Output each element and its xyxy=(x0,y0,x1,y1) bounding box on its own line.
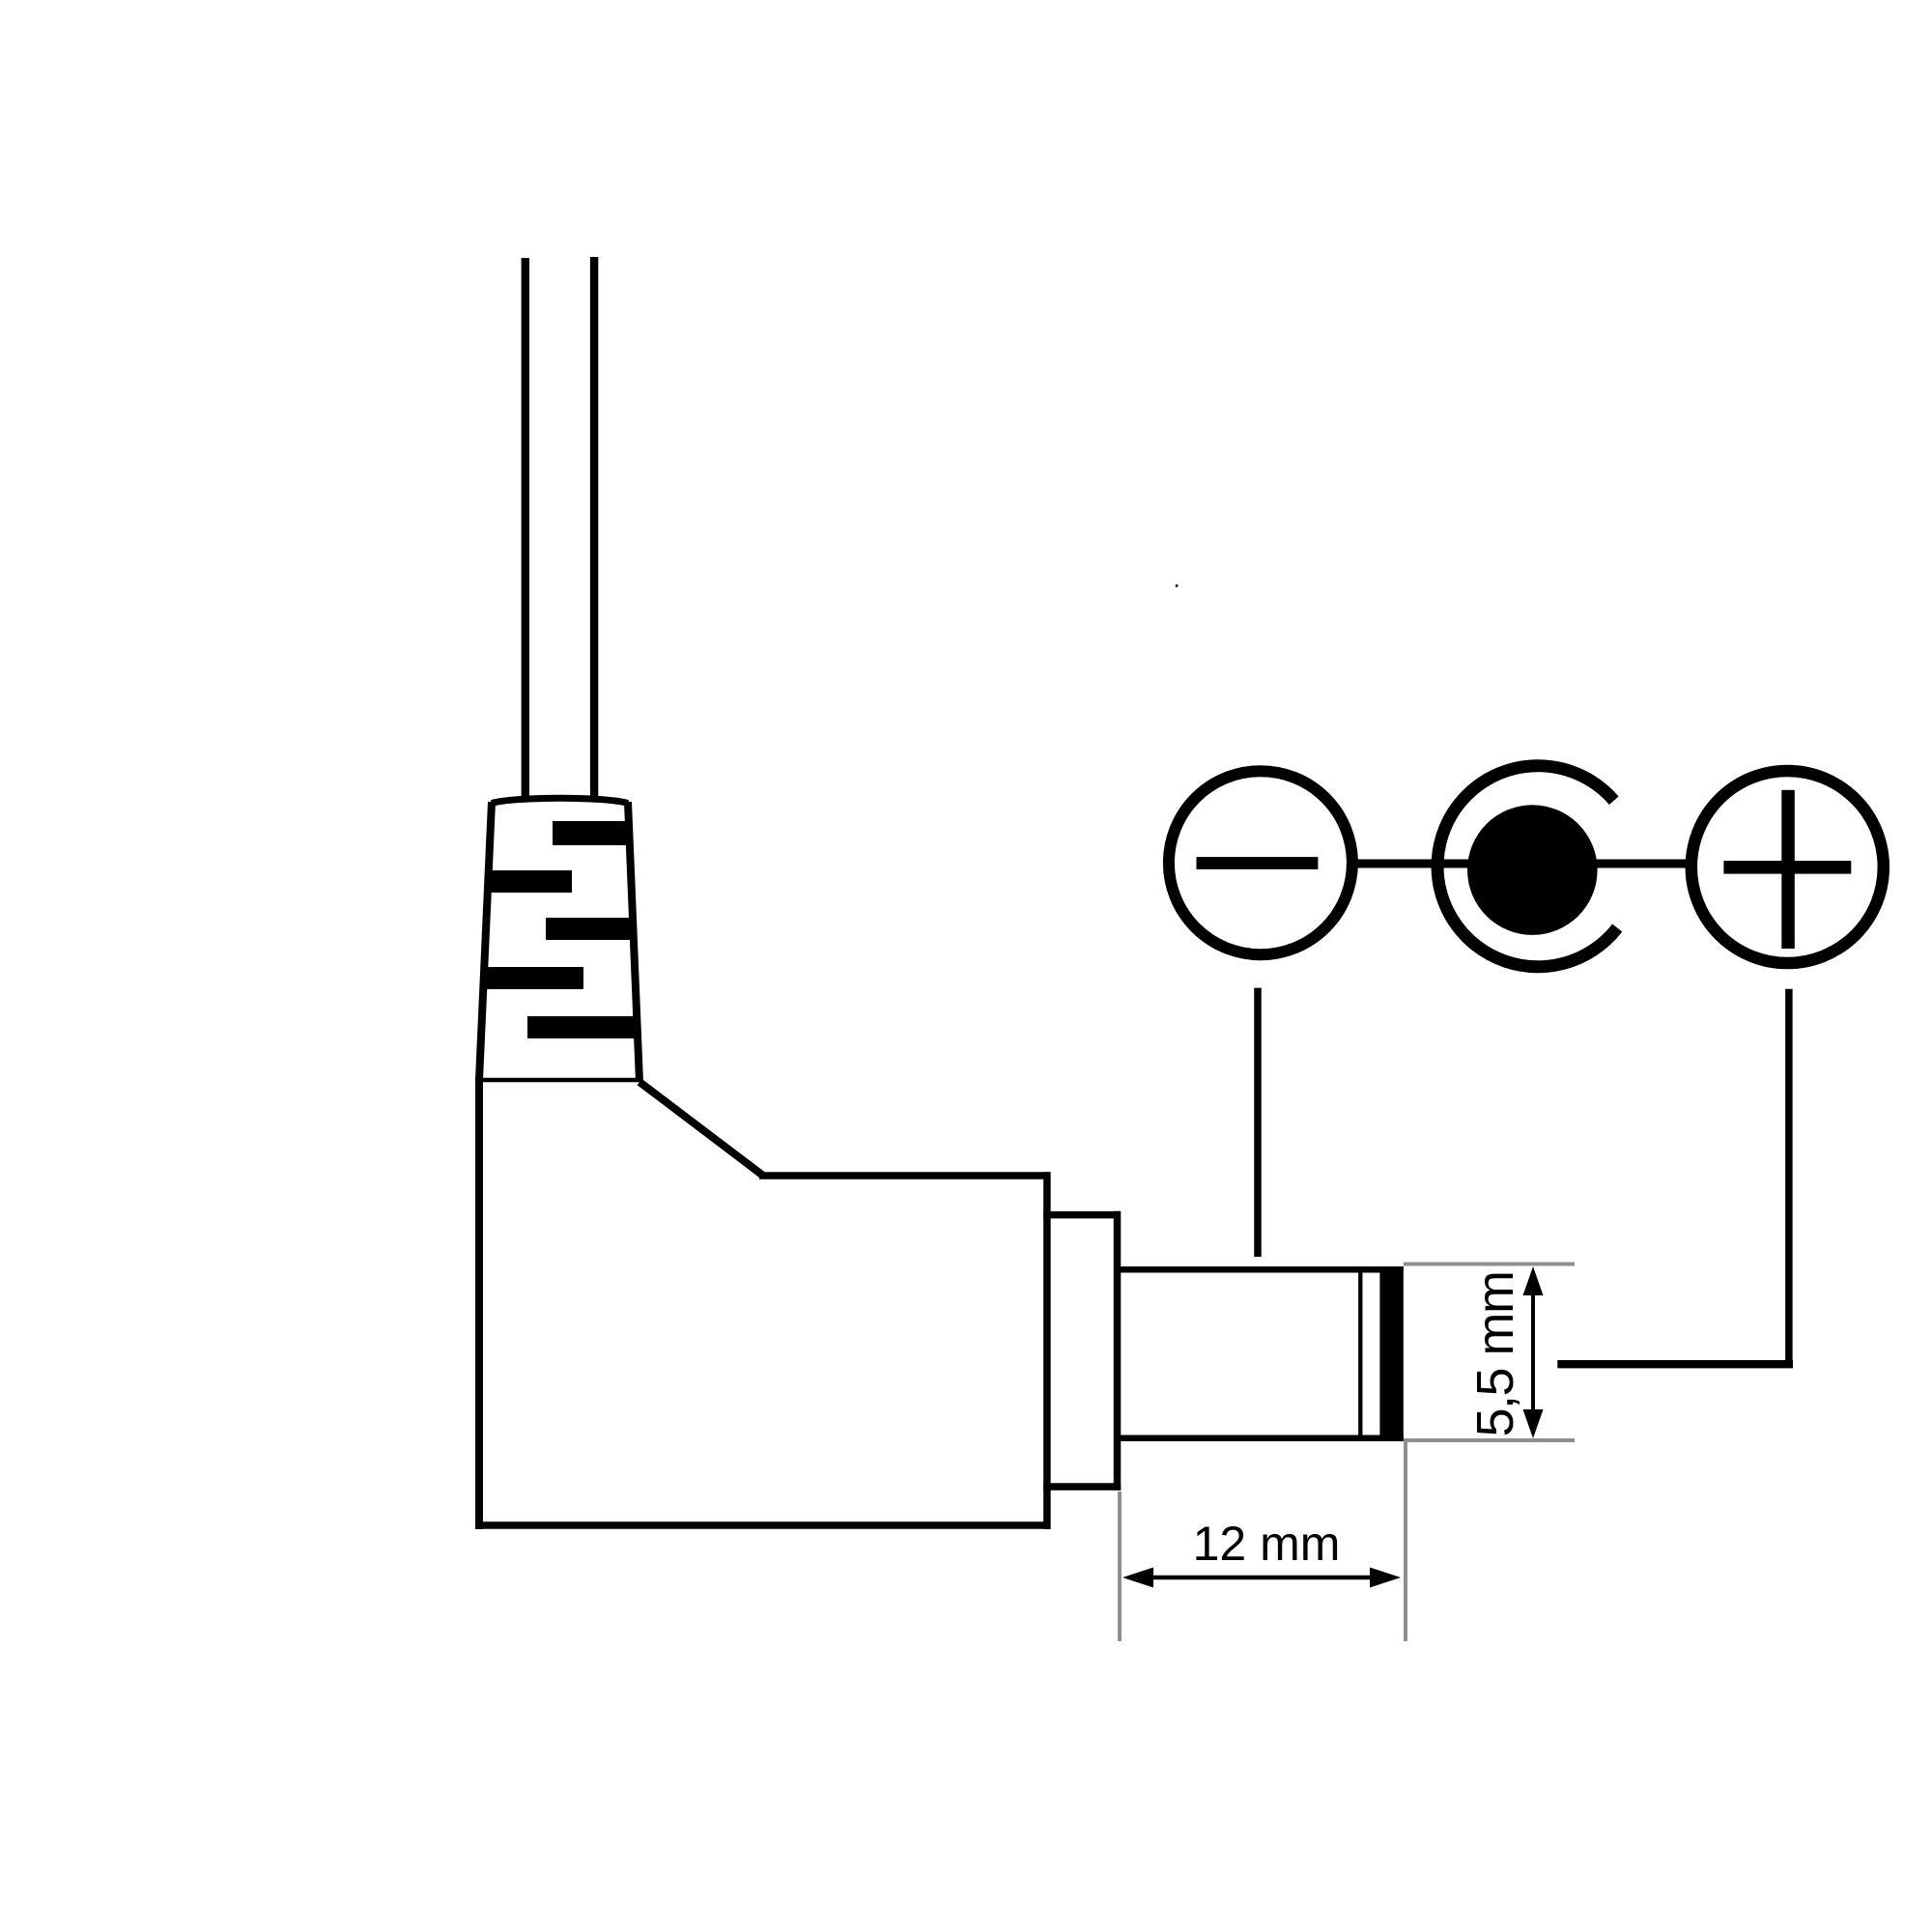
dimension extension line 12mm left (gray) xyxy=(1118,1492,1122,1641)
polarity plus circle xyxy=(1691,771,1884,963)
strain relief hatch mark 1 xyxy=(553,821,630,845)
collar ferrule xyxy=(1043,1211,1121,1491)
lead line from plus symbol vertical xyxy=(1785,989,1793,1364)
dimension arrow 12 mm xyxy=(1122,1568,1401,1588)
strain relief hatch mark 5 xyxy=(527,1016,638,1038)
lead line from minus symbol to barrel sleeve xyxy=(1254,988,1262,1257)
svg-text:5,5 mm: 5,5 mm xyxy=(1466,1271,1524,1436)
svg-text:12 mm: 12 mm xyxy=(1193,1517,1341,1571)
polarity center pin dot xyxy=(1467,805,1598,935)
barrel tip seam line xyxy=(1358,1266,1362,1441)
dimension extension line barrel bottom (gray) xyxy=(1404,1438,1575,1442)
strain relief boot outline xyxy=(476,798,640,1082)
polarity minus sign xyxy=(1197,857,1319,869)
barrel sleeve top edge xyxy=(1114,1266,1404,1273)
polarity plus sign xyxy=(1723,861,1851,874)
polarity minus circle xyxy=(1169,771,1352,954)
dimension extension line barrel top (gray) xyxy=(1404,1263,1575,1266)
barrel tip black band xyxy=(1379,1266,1403,1441)
polarity center sleeve arc xyxy=(1437,766,1617,967)
polarity link wire minus-to-center xyxy=(1356,860,1468,868)
wire cable left conductor xyxy=(522,258,529,802)
stray dot artifact xyxy=(1176,584,1179,587)
lead line from plus symbol horizontal xyxy=(1557,1360,1793,1368)
dimension arrow 5,5 mm xyxy=(1523,1266,1544,1438)
polarity link wire center-to-plus xyxy=(1594,860,1689,868)
strain relief hatch mark 4 xyxy=(483,967,583,989)
plug body outline xyxy=(475,1076,1051,1529)
strain relief hatch mark 2 xyxy=(488,870,572,893)
dimension extension line 12mm right (gray) xyxy=(1404,1440,1407,1641)
wire cable right conductor xyxy=(590,257,598,802)
barrel sleeve bottom edge xyxy=(1114,1435,1404,1441)
strain relief hatch mark 3 xyxy=(546,918,634,940)
